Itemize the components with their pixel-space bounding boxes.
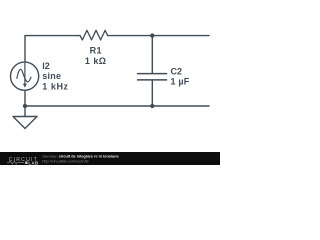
footer logo chip square <box>25 161 27 164</box>
svg-text:LAB: LAB <box>28 160 38 165</box>
wire bottom rail <box>25 105 209 107</box>
svg-text:1 µF: 1 µF <box>171 77 190 87</box>
ground triangle <box>13 117 37 129</box>
junction top cap node <box>150 33 154 37</box>
source I2 sine squiggle <box>17 69 31 82</box>
source I2 arrow shaft <box>24 64 26 84</box>
source I2 circle <box>11 62 39 90</box>
ground stub <box>24 106 26 117</box>
svg-text:1 kHz: 1 kHz <box>42 81 68 91</box>
svg-text:R1: R1 <box>90 46 102 56</box>
wire resistor to right edge <box>108 35 209 37</box>
svg-text:1 kΩ: 1 kΩ <box>85 56 107 66</box>
junction bottom cap node <box>150 104 154 108</box>
wire capacitor branch top <box>151 36 153 74</box>
canvas background <box>0 0 220 165</box>
svg-text:C2: C2 <box>171 67 183 77</box>
svg-text:sine: sine <box>42 71 61 81</box>
svg-text:http://circuitlab.com/ce2rv5r: http://circuitlab.com/ce2rv5r <box>42 160 89 164</box>
junction ground node <box>23 104 27 108</box>
svg-text:I2: I2 <box>42 61 50 71</box>
source I2 arrowhead <box>23 84 27 88</box>
svg-text:Genova / circuit de integrare: Genova / circuit de integrare rc in tens… <box>42 154 118 158</box>
wire top-left corner from source to resistor <box>25 36 80 62</box>
footer logo zigzag <box>7 161 24 164</box>
footer bar <box>0 152 220 165</box>
resistor R1 <box>80 30 108 40</box>
wire capacitor branch bottom <box>151 80 153 106</box>
capacitor C2 plates <box>138 74 167 80</box>
wire source bottom stub <box>24 90 26 106</box>
